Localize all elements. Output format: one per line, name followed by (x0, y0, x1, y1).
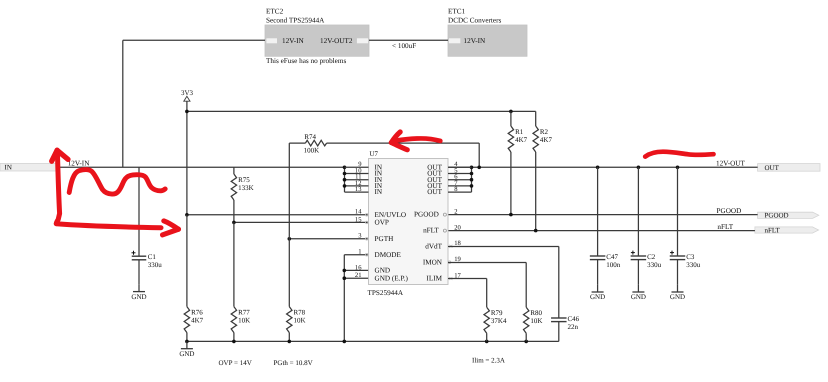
svg-text:4K7: 4K7 (191, 316, 204, 324)
svg-text:IN: IN (375, 188, 383, 196)
svg-text:nFLT: nFLT (423, 227, 439, 235)
svg-text:21: 21 (355, 272, 362, 279)
svg-text:Ilim = 2.3A: Ilim = 2.3A (472, 357, 505, 365)
svg-text:IN: IN (5, 164, 12, 172)
svg-text:R1: R1 (515, 128, 524, 136)
svg-text:PGTH: PGTH (375, 235, 394, 243)
svg-text:C46: C46 (568, 315, 580, 323)
svg-text:100n: 100n (606, 261, 621, 269)
svg-text:12V-IN: 12V-IN (68, 159, 91, 167)
svg-text:13: 13 (355, 186, 362, 193)
svg-text:GND (E.P.): GND (E.P.) (375, 274, 409, 282)
svg-text:ETC2: ETC2 (266, 8, 284, 16)
svg-text:C47: C47 (606, 253, 618, 261)
svg-text:R77: R77 (238, 309, 250, 317)
svg-text:12V-OUT: 12V-OUT (716, 159, 745, 167)
svg-text:R74: R74 (304, 133, 316, 141)
svg-text:GND: GND (179, 350, 194, 358)
svg-text:3V3: 3V3 (181, 89, 194, 97)
svg-text:22n: 22n (568, 323, 579, 331)
svg-text:dVdT: dVdT (425, 242, 442, 250)
svg-text:C3: C3 (686, 253, 695, 261)
svg-text:C2: C2 (647, 253, 656, 261)
svg-text:12V-IN: 12V-IN (464, 37, 487, 45)
svg-text:12V-IN: 12V-IN (282, 37, 305, 45)
svg-text:Second TPS25944A: Second TPS25944A (266, 16, 325, 24)
svg-text:133K: 133K (238, 184, 254, 192)
svg-text:12V-OUT2: 12V-OUT2 (320, 37, 353, 45)
svg-text:10K: 10K (238, 316, 250, 324)
svg-text:OVP = 14V: OVP = 14V (219, 359, 252, 367)
svg-text:PGOOD: PGOOD (765, 212, 789, 220)
svg-text:OUT: OUT (765, 164, 780, 172)
svg-text:PGOOD: PGOOD (717, 207, 742, 215)
svg-text:100K: 100K (304, 147, 320, 155)
svg-text:16: 16 (355, 264, 362, 271)
svg-text:20: 20 (454, 225, 461, 232)
svg-text:10K: 10K (294, 316, 306, 324)
svg-text:GND: GND (631, 293, 646, 301)
svg-text:IMON: IMON (423, 258, 443, 266)
svg-text:C1: C1 (148, 253, 157, 261)
svg-text:PGOOD: PGOOD (414, 211, 439, 219)
svg-text:ETC1: ETC1 (448, 8, 466, 16)
svg-text:PGth = 10.8V: PGth = 10.8V (274, 359, 313, 367)
svg-text:R78: R78 (294, 309, 306, 317)
svg-text:15: 15 (355, 216, 362, 223)
svg-text:GND: GND (375, 267, 391, 275)
svg-text:4K7: 4K7 (515, 136, 528, 144)
svg-text:R76: R76 (191, 309, 203, 317)
svg-text:OUT: OUT (427, 188, 442, 196)
svg-text:GND: GND (670, 293, 685, 301)
svg-text:nFLT: nFLT (717, 223, 733, 231)
svg-text:DCDC Converters: DCDC Converters (448, 16, 502, 24)
svg-text:OVP: OVP (375, 219, 389, 227)
svg-text:This eFuse has no problems: This eFuse has no problems (266, 57, 346, 65)
svg-text:37K4: 37K4 (491, 317, 507, 325)
svg-text:14: 14 (355, 209, 362, 216)
svg-text:nFLT: nFLT (765, 226, 781, 234)
svg-text:GND: GND (131, 293, 146, 301)
svg-text:10K: 10K (530, 317, 542, 325)
svg-text:330u: 330u (148, 261, 163, 269)
svg-text:1: 1 (358, 249, 361, 256)
svg-text:R2: R2 (540, 128, 549, 136)
svg-text:DMODE: DMODE (375, 251, 402, 259)
svg-text:4K7: 4K7 (540, 136, 553, 144)
svg-text:R80: R80 (530, 309, 542, 317)
svg-text:R79: R79 (491, 309, 503, 317)
svg-text:GND: GND (590, 293, 605, 301)
svg-text:330u: 330u (647, 261, 662, 269)
svg-text:330u: 330u (686, 261, 701, 269)
svg-text:ILIM: ILIM (426, 275, 442, 283)
svg-text:TPS25944A: TPS25944A (368, 289, 404, 297)
svg-text:< 100uF: < 100uF (392, 42, 416, 50)
svg-text:R75: R75 (238, 176, 250, 184)
svg-text:2: 2 (454, 209, 457, 216)
svg-text:U7: U7 (370, 150, 379, 158)
